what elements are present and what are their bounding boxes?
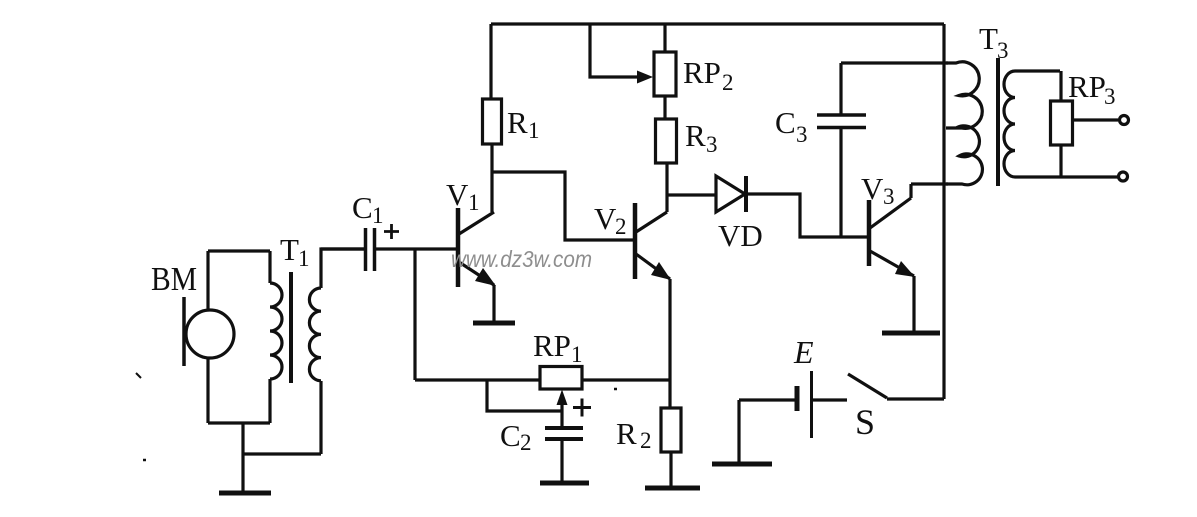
wire R3 bottom to VD node (667, 193, 716, 196)
wiper arrow RP2 (637, 71, 653, 84)
wire to RP1 left (415, 378, 540, 381)
transformer T1 secondary (243, 249, 364, 454)
label R3 (685, 118, 718, 157)
wire RP3 wiper to terminal (1073, 118, 1118, 121)
label C2 (500, 418, 532, 455)
resistor R3 (656, 119, 677, 163)
svg-text:2: 2 (640, 428, 652, 453)
transformer T1 primary (270, 251, 282, 423)
wire switch to rail (887, 397, 944, 400)
label C3 (775, 105, 808, 147)
label plus C1 (384, 224, 399, 239)
wire battery left down (737, 400, 740, 462)
potentiometer RP1 (540, 367, 582, 390)
wire RP1 left jog to wiper (487, 380, 562, 411)
battery E (797, 371, 812, 438)
capacitor C2 (545, 428, 583, 439)
wire battery left (739, 398, 795, 401)
wire R2 top (668, 380, 671, 408)
terminal lower (1119, 172, 1128, 181)
ground battery (712, 462, 772, 467)
wire C2 top (560, 411, 563, 428)
svg-text:2: 2 (615, 214, 627, 239)
svg-text:S: S (855, 402, 875, 442)
wiper wire RP2 from rail (590, 24, 640, 77)
label C1 (352, 190, 384, 228)
svg-text:2: 2 (722, 70, 734, 95)
wire VD cathode to V3 base (746, 194, 869, 237)
wire V2 collector to R3 (665, 163, 668, 212)
label VD (718, 218, 763, 253)
wire BM left lower (206, 357, 209, 423)
svg-text:R: R (685, 118, 706, 153)
core T3 (996, 58, 1000, 186)
wire RP2 top to rail (663, 24, 666, 52)
capacitor C3 (817, 115, 866, 128)
wire V2 emitter down (668, 279, 671, 380)
svg-text:1: 1 (468, 190, 480, 215)
wire R1 bottom to V1 collector (490, 144, 493, 212)
label RP2 (683, 55, 734, 95)
svg-text:1: 1 (571, 342, 583, 367)
wire right supply rail (942, 24, 945, 399)
svg-text:3: 3 (997, 38, 1009, 63)
wire R1 top to rail (489, 24, 492, 99)
label BM (151, 261, 197, 298)
label E (793, 334, 814, 370)
wire top supply rail (491, 22, 944, 25)
wire V3 emitter down (912, 276, 915, 331)
wire battery right to switch (813, 398, 847, 401)
wire BM loop bottom (208, 421, 270, 424)
svg-text:R: R (616, 416, 637, 451)
wire C3 top (839, 63, 842, 115)
ground V3 emitter (882, 331, 940, 336)
svg-text:1: 1 (298, 246, 310, 271)
wire RP3 top (1059, 71, 1062, 101)
resistor R1 (483, 99, 502, 144)
svg-text:1: 1 (528, 118, 540, 143)
wire C3 to T3 primary top (841, 61, 948, 64)
wiper arrow RP1 (557, 390, 568, 412)
label plus C2 (573, 399, 591, 417)
svg-text:V: V (446, 177, 469, 212)
label T3 (979, 21, 1009, 63)
potentiometer RP3 (1051, 101, 1073, 145)
potentiometer RP2 (654, 52, 676, 96)
svg-text:C: C (352, 190, 373, 225)
ground T1 (219, 491, 271, 496)
speck (143, 459, 146, 462)
wire node A down to RP1 (413, 249, 416, 380)
microphone BM (184, 297, 234, 366)
wire RP2 to R3 (663, 96, 666, 119)
svg-text:RP: RP (683, 55, 721, 90)
svg-text:T: T (280, 232, 299, 267)
resistor R2 (661, 408, 681, 452)
svg-text:3: 3 (883, 184, 895, 209)
svg-text:C: C (500, 418, 521, 453)
svg-text:RP: RP (1068, 69, 1106, 104)
terminal upper (1120, 116, 1129, 125)
label RP1 (533, 328, 583, 367)
transformer T3 secondary (1004, 71, 1119, 177)
ground V1 emitter (473, 321, 515, 326)
wire BM loop top (208, 249, 270, 252)
label V3 (861, 171, 895, 209)
speck (614, 388, 617, 391)
svg-text:2: 2 (520, 430, 532, 455)
label V1 (446, 177, 480, 215)
label RP3 (1068, 69, 1116, 109)
label T1 (280, 232, 310, 271)
svg-text:V: V (594, 201, 617, 236)
wire C1 to V1 base (376, 247, 458, 250)
svg-text:VD: VD (718, 218, 763, 253)
svg-text:E: E (793, 334, 814, 370)
transistor V2 (635, 203, 671, 280)
wire V1 collector branch to V2 base (492, 172, 635, 240)
svg-text:RP: RP (533, 328, 571, 363)
transformer T3 primary (946, 62, 982, 185)
ground C2 (540, 481, 589, 486)
wire C3 bottom to V3 base wire (839, 129, 842, 237)
svg-text:3: 3 (706, 132, 718, 157)
wire RP1 right to R2 node (582, 378, 670, 381)
speck (136, 373, 141, 378)
svg-text:3: 3 (1104, 84, 1116, 109)
svg-text:1: 1 (372, 203, 384, 228)
wire T1 secondary to C1 (321, 247, 364, 250)
capacitor C1 (366, 228, 375, 271)
switch S (848, 374, 887, 398)
svg-text:BM: BM (151, 261, 197, 298)
label S (855, 402, 875, 442)
wire V3 collector to T3 primary bottom (911, 184, 948, 198)
transistor V3 (869, 198, 915, 277)
watermark (451, 246, 592, 272)
transistor V1 (458, 208, 496, 287)
wire R2 bottom (669, 452, 672, 486)
label R2 (616, 416, 652, 453)
svg-text:R: R (507, 105, 528, 140)
ground R2 (645, 486, 700, 491)
core T1 (289, 272, 293, 383)
svg-text:C: C (775, 105, 796, 140)
svg-text:www.dz3w.com: www.dz3w.com (451, 246, 592, 272)
wire RP3 bottom (1059, 145, 1062, 176)
wire T1 ground (241, 423, 244, 491)
wire C2 bottom (560, 440, 563, 481)
wire V1 emitter down (492, 285, 495, 321)
label V2 (594, 201, 627, 239)
svg-text:T: T (979, 21, 998, 56)
label R1 (507, 105, 540, 143)
svg-text:V: V (861, 171, 884, 206)
wire BM left upper (206, 251, 209, 311)
diode VD (716, 176, 746, 212)
svg-text:3: 3 (796, 122, 808, 147)
